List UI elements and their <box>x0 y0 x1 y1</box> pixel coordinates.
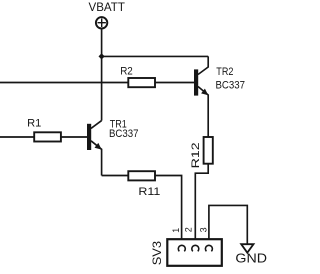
wire TR1 emitter to R11 <box>102 175 129 177</box>
svg-text:BC337: BC337 <box>216 80 246 92</box>
pin 3 socket arc <box>205 245 212 251</box>
connector SV3 body <box>167 239 222 266</box>
wire TR1 base net (from left edge through R1) <box>0 136 87 138</box>
TR2 emitter lead <box>198 87 208 138</box>
svg-text:3: 3 <box>198 227 208 232</box>
wire R11 to SV3 pin 1 <box>155 176 182 246</box>
resistor R2 <box>128 78 155 87</box>
resistor R11 <box>128 171 155 180</box>
wire TR2 base net (from left edge through R2) <box>0 82 194 84</box>
wire VBATT vertical (supply to junction to TR1 collector) <box>101 29 103 120</box>
supply symbol VBATT (circle with plus) <box>96 17 107 28</box>
svg-text:R11: R11 <box>138 186 160 198</box>
resistor R1 <box>34 132 61 141</box>
wire top horizontal rail to TR2 collector <box>102 55 209 57</box>
svg-text:GND: GND <box>235 250 267 265</box>
transistor TR2 (NPN BC337) <box>194 56 208 137</box>
TR2 base bar <box>194 69 198 95</box>
wire R12 to SV3 pin 2 <box>195 164 208 246</box>
svg-text:1: 1 <box>171 228 181 233</box>
svg-text:R2: R2 <box>120 66 133 78</box>
resistor R12 (vertical) <box>204 137 213 164</box>
TR1 emitter arrow <box>95 143 102 150</box>
transistor TR1 (NPN BC337) <box>87 121 102 176</box>
TR2 collector lead <box>198 56 208 74</box>
wire SV3 pin 3 to GND <box>209 205 247 245</box>
svg-text:R1: R1 <box>27 118 41 130</box>
TR1 collector lead diagonal <box>91 121 102 129</box>
svg-text:SV3: SV3 <box>150 241 164 266</box>
pin 2 socket arc <box>192 245 199 251</box>
svg-text:VBATT: VBATT <box>89 2 125 14</box>
svg-text:TR2: TR2 <box>216 66 233 78</box>
svg-text:BC337: BC337 <box>109 128 139 140</box>
node junction at VBATT rail <box>99 53 105 59</box>
TR1 emitter lead <box>91 141 102 176</box>
svg-text:R12: R12 <box>190 142 202 168</box>
ground symbol GND <box>241 244 253 253</box>
TR2 emitter arrow <box>201 89 208 96</box>
TR1 base bar <box>87 124 91 150</box>
svg-text:2: 2 <box>183 227 193 232</box>
pin 1 socket arc <box>178 245 185 251</box>
